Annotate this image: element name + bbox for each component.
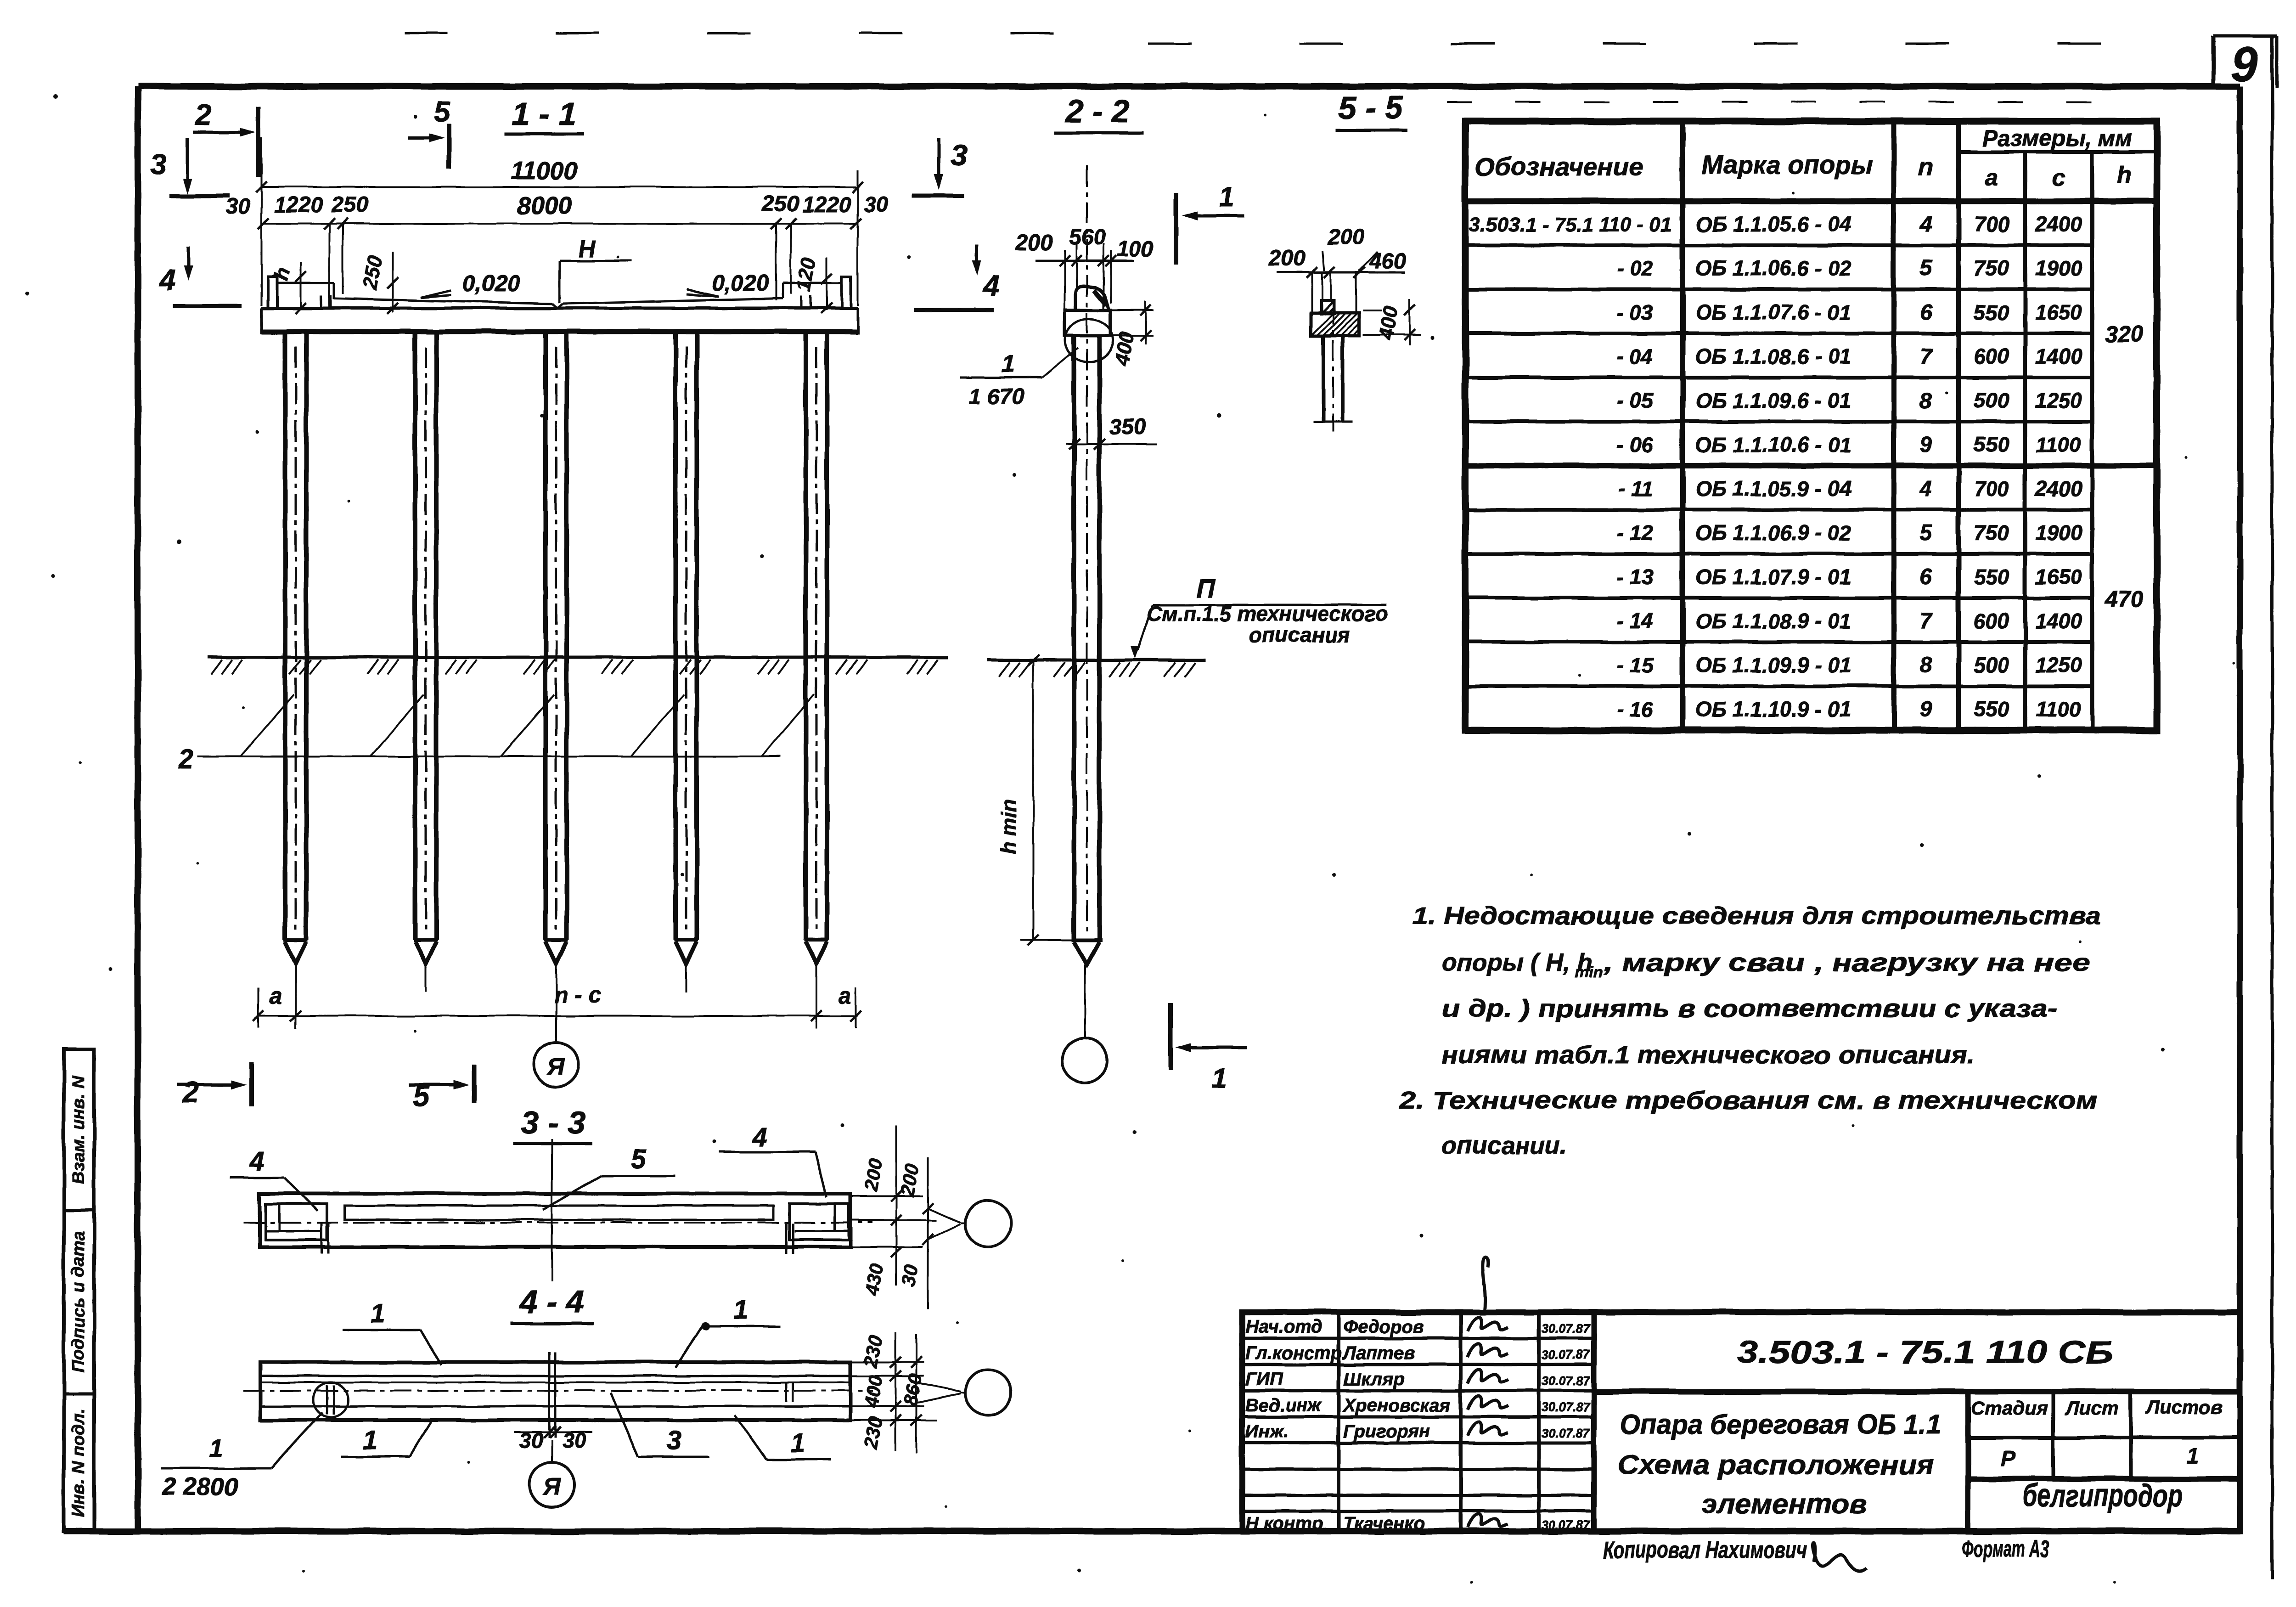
svg-text:1. Недостающие сведения для: 1. Недостающие сведения для строительств… <box>1412 902 2101 930</box>
svg-text:Н контр: Н контр <box>1245 1513 1323 1534</box>
title block right dividers <box>1594 1389 2240 1394</box>
svg-text:Марка опоры: Марка опоры <box>1701 150 1873 179</box>
svg-text:0,020: 0,020 <box>711 270 769 296</box>
svg-text:560: 560 <box>1069 225 1106 249</box>
svg-text:30: 30 <box>225 195 250 219</box>
svg-text:и др. ) принять в соответс: и др. ) принять в соответствии с указа- <box>1442 995 2057 1022</box>
table column lines <box>1680 121 1685 730</box>
svg-text:0,020: 0,020 <box>462 271 520 296</box>
svg-text:30.07.87: 30.07.87 <box>1542 1518 1590 1532</box>
cap top slope left <box>334 299 552 304</box>
svg-text:1250: 1250 <box>2035 389 2082 412</box>
ground line view 1-1 <box>208 656 948 659</box>
svg-text:1 670: 1 670 <box>969 385 1024 409</box>
svg-text:Схема расположения: Схема расположения <box>1617 1449 1934 1480</box>
frame ghost dashes above table <box>1446 101 2094 103</box>
svg-text:2 2800: 2 2800 <box>162 1473 238 1500</box>
svg-text:Федоров: Федоров <box>1343 1317 1424 1337</box>
center lines view 3-3 <box>243 1222 872 1224</box>
svg-text:4: 4 <box>1919 477 1932 501</box>
svg-text:1250: 1250 <box>2035 653 2082 677</box>
svg-text:H: H <box>578 236 596 263</box>
title block outer <box>1242 1312 2240 1531</box>
svg-text:9: 9 <box>1920 697 1932 722</box>
svg-text:4: 4 <box>158 264 176 297</box>
svg-text:470: 470 <box>2105 586 2144 612</box>
svg-text:4: 4 <box>1919 212 1932 237</box>
svg-text:2400: 2400 <box>2035 212 2082 236</box>
svg-text:2: 2 <box>182 1076 199 1109</box>
dimension 200 560 100 <box>1035 260 1134 262</box>
pile center line 2-2 <box>1086 165 1088 935</box>
svg-text:Гл.констр: Гл.констр <box>1245 1343 1342 1363</box>
svg-text:230: 230 <box>860 1334 887 1370</box>
svg-text:120: 120 <box>792 256 820 293</box>
svg-text:Лаптев: Лаптев <box>1342 1343 1415 1363</box>
svg-text:1: 1 <box>2187 1444 2199 1468</box>
svg-text:550: 550 <box>1974 433 2009 457</box>
svg-text:Хреновская: Хреновская <box>1342 1395 1451 1415</box>
svg-text:3.503.1 - 75.1 110 - 01: 3.503.1 - 75.1 110 - 01 <box>1469 214 1672 236</box>
svg-text:ОБ 1.1.05.9 - 04: ОБ 1.1.05.9 - 04 <box>1695 477 1851 501</box>
svg-text:750: 750 <box>1974 521 2009 545</box>
svg-text:1900: 1900 <box>2035 256 2082 280</box>
slot view 3-3 <box>345 1206 773 1220</box>
cap right end block <box>842 276 851 308</box>
svg-text:элементов: элементов <box>1701 1489 1867 1519</box>
svg-text:430: 430 <box>861 1262 888 1297</box>
svg-text:1220: 1220 <box>274 193 323 217</box>
svg-text:4: 4 <box>982 270 999 303</box>
svg-text:1: 1 <box>1211 1063 1227 1094</box>
svg-text:a: a <box>1985 164 1998 191</box>
signatures <box>1468 1317 1508 1331</box>
svg-text:- 14: - 14 <box>1617 609 1653 633</box>
svg-text:h min: h min <box>996 799 1020 855</box>
svg-text:Я: Я <box>546 1054 565 1080</box>
svg-text:3.503.1 - 75.1 110 СБ: 3.503.1 - 75.1 110 СБ <box>1737 1334 2113 1370</box>
svg-text:3: 3 <box>951 139 967 172</box>
rebar ticks view 4-4 <box>785 1383 788 1402</box>
center joint view 4-4 <box>548 1353 551 1438</box>
dimension h at left end <box>300 262 302 309</box>
svg-text:30.07.87: 30.07.87 <box>1542 1426 1590 1440</box>
svg-text:1: 1 <box>363 1426 377 1455</box>
svg-text:1100: 1100 <box>2036 697 2082 721</box>
svg-text:400: 400 <box>860 1374 887 1410</box>
svg-text:30.07.87: 30.07.87 <box>1542 1400 1590 1414</box>
drawing frame <box>138 83 2240 90</box>
svg-text:11000: 11000 <box>511 157 578 185</box>
svg-text:Шкляр: Шкляр <box>1343 1369 1404 1389</box>
svg-text:600: 600 <box>1974 344 2009 368</box>
svg-text:3: 3 <box>667 1426 681 1455</box>
svg-text:550: 550 <box>1974 565 2009 589</box>
svg-text:Лист: Лист <box>2064 1397 2118 1419</box>
table h column group line <box>2092 463 2157 468</box>
svg-text:1: 1 <box>370 1299 385 1329</box>
svg-text:Инв. N подл.: Инв. N подл. <box>69 1409 88 1517</box>
svg-text:белгипродор: белгипродор <box>2022 1477 2183 1513</box>
dimension 400 cap height 2-2 <box>1112 309 1154 311</box>
svg-text:- 15: - 15 <box>1617 653 1654 677</box>
svg-text:1400: 1400 <box>2035 609 2082 633</box>
svg-text:500: 500 <box>1974 389 2009 412</box>
svg-text:- 16: - 16 <box>1617 697 1654 721</box>
svg-text:a: a <box>838 983 851 1009</box>
weld circle view 4-4 <box>313 1382 348 1417</box>
svg-text:2400: 2400 <box>2035 477 2082 501</box>
svg-text:700: 700 <box>1974 212 2009 236</box>
svg-text:, марку сваи , нагрузку на: , марку сваи , нагрузку на нее <box>1603 949 2090 976</box>
dimension 120 vertical right <box>826 257 827 310</box>
svg-text:2: 2 <box>178 744 193 774</box>
svg-text:- 05: - 05 <box>1617 389 1654 412</box>
svg-text:описании.: описании. <box>1442 1132 1567 1159</box>
svg-text:- 03: - 03 <box>1617 300 1654 324</box>
svg-text:1900: 1900 <box>2035 521 2082 545</box>
svg-text:5: 5 <box>631 1145 646 1174</box>
svg-text:1650: 1650 <box>2035 565 2082 589</box>
svg-text:7: 7 <box>1920 609 1933 633</box>
svg-text:1: 1 <box>209 1435 223 1462</box>
svg-text:200: 200 <box>1015 231 1052 255</box>
svg-text:2 - 2: 2 - 2 <box>1064 93 1130 129</box>
node marker Ya view 4-4 <box>551 1440 553 1462</box>
cap top slope right <box>563 299 783 304</box>
svg-text:n: n <box>1918 152 1934 181</box>
svg-text:1: 1 <box>733 1295 748 1325</box>
tenon block 5-5 <box>1321 300 1334 314</box>
svg-text:9: 9 <box>2231 37 2258 91</box>
scan specks <box>53 94 57 99</box>
svg-text:350: 350 <box>1109 415 1146 439</box>
left bracket view 3-3 <box>265 1204 327 1240</box>
svg-text:30: 30 <box>898 1263 923 1288</box>
svg-text:200: 200 <box>860 1157 887 1193</box>
pile body 2-2 <box>1072 336 1076 940</box>
svg-text:- 13: - 13 <box>1617 565 1654 589</box>
svg-text:200: 200 <box>1327 225 1364 249</box>
svg-text:5: 5 <box>434 95 451 128</box>
beam section view 4-4 <box>260 1362 850 1420</box>
dims right view 3-3 <box>850 1195 923 1197</box>
beam plan view 3-3 <box>259 1194 850 1247</box>
pile 2 <box>413 332 417 940</box>
svg-text:30: 30 <box>864 192 889 217</box>
dimension h min <box>1032 660 1034 940</box>
svg-text:5: 5 <box>1920 256 1933 281</box>
dimension 250 vertical left <box>392 252 394 312</box>
svg-text:250: 250 <box>762 192 799 216</box>
dimension 200 460 <box>1277 271 1405 274</box>
svg-text:ГИП: ГИП <box>1245 1369 1283 1389</box>
leader line item 2 to piles <box>197 756 781 757</box>
svg-text:550: 550 <box>1974 697 2009 721</box>
joint leader circle 2-2 <box>1065 319 1113 362</box>
right bracket view 3-3 <box>789 1204 849 1240</box>
svg-text:4: 4 <box>752 1122 767 1152</box>
svg-text:8: 8 <box>1920 389 1932 413</box>
ground hatching view 1-1 <box>211 660 222 674</box>
svg-text:ОБ 1.1.10.9 - 01: ОБ 1.1.10.9 - 01 <box>1695 697 1851 721</box>
svg-text:200: 200 <box>1268 246 1306 271</box>
svg-text:Григорян: Григорян <box>1343 1421 1430 1442</box>
dimension 350 <box>1065 443 1157 445</box>
svg-text:См.п.1.5 технического: См.п.1.5 технического <box>1147 602 1388 626</box>
svg-text:Копировал Нахимович: Копировал Нахимович <box>1603 1537 1807 1563</box>
svg-text:550: 550 <box>1974 300 2009 324</box>
svg-text:Обозначение: Обозначение <box>1475 152 1643 181</box>
svg-text:30.07.87: 30.07.87 <box>1542 1348 1590 1362</box>
node marker Ya view 1-1 <box>534 1042 579 1087</box>
bottom dimension a n-c a <box>257 1015 858 1017</box>
svg-text:1: 1 <box>1219 182 1234 213</box>
svg-text:min: min <box>1575 964 1603 981</box>
table row lines <box>1465 243 2092 247</box>
svg-text:500: 500 <box>1974 653 2009 677</box>
svg-text:100: 100 <box>1117 237 1154 261</box>
svg-text:200: 200 <box>896 1162 923 1198</box>
svg-text:ОБ 1.1.07.9 - 01: ОБ 1.1.07.9 - 01 <box>1695 565 1851 589</box>
svg-text:1100: 1100 <box>2036 433 2082 457</box>
svg-text:- 06: - 06 <box>1617 433 1654 457</box>
svg-text:30.07.87: 30.07.87 <box>1542 1321 1590 1336</box>
svg-text:Ткаченко: Ткаченко <box>1343 1513 1425 1534</box>
svg-text:опоры ( Н, h: опоры ( Н, h <box>1442 949 1593 976</box>
cap hook collar <box>1075 287 1109 310</box>
svg-text:Нач.отд: Нач.отд <box>1245 1317 1322 1337</box>
svg-text:5 - 5: 5 - 5 <box>1339 90 1403 125</box>
svg-text:ОБ 1.1.05.6 - 04: ОБ 1.1.05.6 - 04 <box>1695 212 1851 236</box>
cap left end block <box>268 276 277 308</box>
svg-text:1400: 1400 <box>2035 344 2082 368</box>
svg-text:6: 6 <box>1920 565 1932 589</box>
svg-text:460: 460 <box>1369 249 1406 273</box>
svg-text:Я: Я <box>542 1474 561 1500</box>
svg-text:1: 1 <box>1002 351 1015 378</box>
left filing strip <box>64 1049 94 1531</box>
pile 3 <box>543 332 548 940</box>
svg-text:c: c <box>2052 164 2065 191</box>
svg-text:7: 7 <box>1920 344 1933 369</box>
sheet number box 9 <box>2212 36 2216 88</box>
svg-text:h: h <box>2117 162 2132 188</box>
leader circle view 4-4 <box>965 1370 1011 1415</box>
svg-text:- 11: - 11 <box>1618 477 1653 501</box>
svg-text:Листов: Листов <box>2145 1396 2223 1418</box>
svg-text:- 02: - 02 <box>1617 256 1654 280</box>
dimension 11000 <box>261 186 858 188</box>
ground line view 2-2 <box>987 659 1205 662</box>
svg-text:- 04: - 04 <box>1617 344 1653 368</box>
svg-text:n - c: n - c <box>554 982 602 1008</box>
svg-text:Взам. инв. N: Взам. инв. N <box>69 1075 88 1184</box>
svg-text:описания: описания <box>1249 623 1350 647</box>
svg-text:ОБ 1.1.09.9 - 01: ОБ 1.1.09.9 - 01 <box>1695 653 1851 677</box>
svg-text:Подпись и дата: Подпись и дата <box>69 1231 88 1373</box>
svg-text:Р: Р <box>2001 1447 2016 1471</box>
svg-text:a: a <box>270 983 282 1009</box>
svg-text:30.07.87: 30.07.87 <box>1542 1374 1590 1388</box>
svg-text:8000: 8000 <box>517 192 572 220</box>
svg-text:4: 4 <box>249 1146 264 1176</box>
svg-text:4 - 4: 4 - 4 <box>519 1284 584 1319</box>
svg-text:750: 750 <box>1974 256 2009 280</box>
table header lines <box>1958 150 2157 154</box>
svg-text:1220: 1220 <box>802 193 851 217</box>
svg-text:3: 3 <box>150 148 167 181</box>
pile 5 <box>804 332 808 940</box>
rebar ticks view 3-3 <box>321 1224 323 1254</box>
title block signature columns <box>1337 1312 1340 1531</box>
svg-text:320: 320 <box>2105 321 2144 347</box>
svg-text:8: 8 <box>1920 653 1932 677</box>
svg-text:1650: 1650 <box>2035 300 2082 324</box>
svg-text:3 - 3: 3 - 3 <box>521 1105 585 1140</box>
svg-text:9: 9 <box>1920 433 1932 457</box>
svg-text:Опара береговая ОБ 1.1: Опара береговая ОБ 1.1 <box>1620 1409 1941 1440</box>
slope mark 0,020 right <box>687 289 719 297</box>
pile cap beam <box>261 307 858 310</box>
cap cross-section 2-2 <box>1065 310 1110 336</box>
svg-text:6: 6 <box>1920 300 1932 325</box>
svg-text:- 12: - 12 <box>1617 521 1654 545</box>
svg-text:ОБ 1.1.07.6 - 01: ОБ 1.1.07.6 - 01 <box>1695 300 1851 324</box>
svg-text:2: 2 <box>195 98 212 131</box>
svg-text:Формат А3: Формат А3 <box>1962 1536 2049 1562</box>
pile 4 <box>673 332 678 940</box>
leader circle view 3-3 <box>965 1201 1011 1246</box>
sheet border right edge <box>2271 37 2274 1580</box>
svg-text:ОБ 1.1.06.6 - 02: ОБ 1.1.06.6 - 02 <box>1695 256 1851 280</box>
pile cap section 5-5 hatched <box>1311 313 1359 336</box>
svg-text:П: П <box>1197 574 1216 603</box>
svg-text:ниями табл.1 технического о: ниями табл.1 технического описания. <box>1442 1041 1975 1069</box>
dims right view 4-4 <box>850 1361 924 1363</box>
svg-text:ОБ 1.1.08.6 - 01: ОБ 1.1.08.6 - 01 <box>1695 344 1851 368</box>
signature flourish above <box>1483 1257 1488 1314</box>
svg-text:ОБ 1.1.10.6 - 01: ОБ 1.1.10.6 - 01 <box>1695 433 1851 457</box>
svg-text:Инж.: Инж. <box>1245 1421 1289 1442</box>
svg-text:ОБ 1.1.06.9 - 02: ОБ 1.1.06.9 - 02 <box>1695 521 1851 545</box>
dimension 400 5-5 <box>1363 310 1382 311</box>
svg-text:h: h <box>270 265 294 283</box>
svg-text:2. Технические требования с: 2. Технические требования см. в техничес… <box>1399 1087 2098 1114</box>
dimension row 30 1220 250 8000 250 1220 30 <box>263 223 856 225</box>
svg-text:ОБ 1.1.08.9 - 01: ОБ 1.1.08.9 - 01 <box>1695 609 1851 633</box>
svg-text:5: 5 <box>1920 521 1933 545</box>
svg-text:Вед.инж: Вед.инж <box>1245 1395 1322 1415</box>
slope mark 0,020 left <box>421 290 451 298</box>
table opor marks - outer border <box>1465 121 2157 730</box>
svg-text:700: 700 <box>1974 477 2009 501</box>
svg-text:Размеры, мм: Размеры, мм <box>1982 125 2132 151</box>
svg-text:1: 1 <box>791 1428 805 1458</box>
node circle below pile 2-2 <box>1084 964 1086 1038</box>
title block signature rows <box>1242 1337 1594 1340</box>
svg-text:250: 250 <box>331 193 368 217</box>
svg-text:250: 250 <box>359 254 387 292</box>
svg-text:ОБ 1.1.09.6 - 01: ОБ 1.1.09.6 - 01 <box>1695 389 1851 412</box>
pile below cap 5-5 <box>1322 336 1325 421</box>
svg-text:1 - 1: 1 - 1 <box>512 96 576 132</box>
sheet border artifacts top <box>404 32 1148 34</box>
pile 1 <box>283 332 287 940</box>
svg-text:600: 600 <box>1974 609 2009 633</box>
svg-text:Стадия: Стадия <box>1971 1397 2048 1419</box>
